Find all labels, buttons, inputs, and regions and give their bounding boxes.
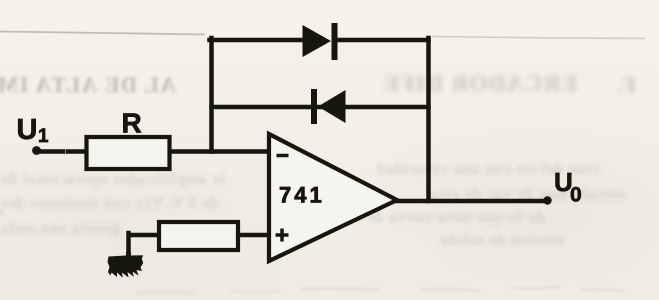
- svg-text:1: 1: [38, 126, 49, 147]
- svg-text:U: U: [17, 114, 38, 146]
- svg-text:741: 741: [279, 183, 325, 208]
- svg-text:0: 0: [570, 184, 582, 207]
- svg-text:R: R: [122, 108, 142, 139]
